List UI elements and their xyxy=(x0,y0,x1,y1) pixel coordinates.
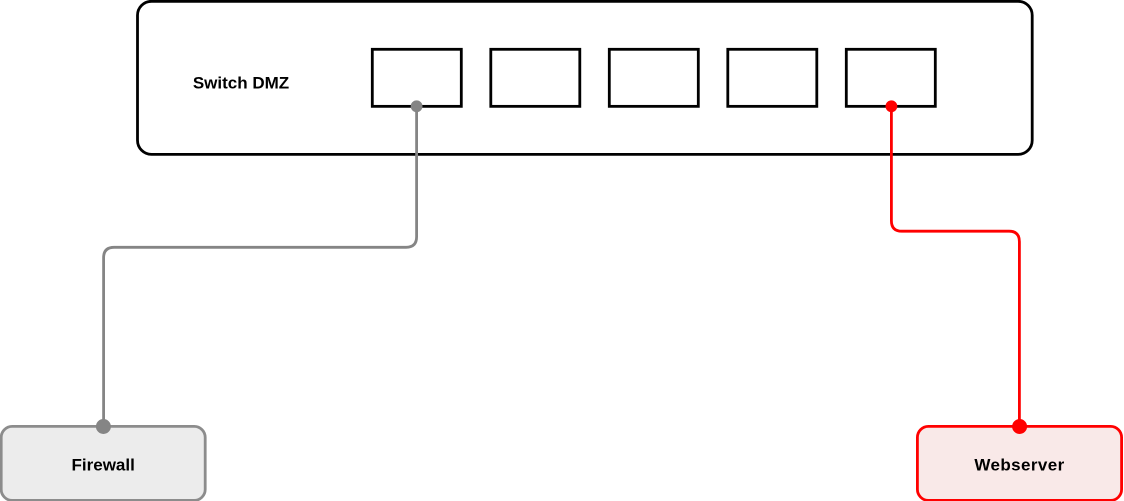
svg-text:Switch DMZ: Switch DMZ xyxy=(193,74,289,93)
svg-text:Webserver: Webserver xyxy=(974,455,1064,474)
svg-text:Firewall: Firewall xyxy=(72,455,135,474)
